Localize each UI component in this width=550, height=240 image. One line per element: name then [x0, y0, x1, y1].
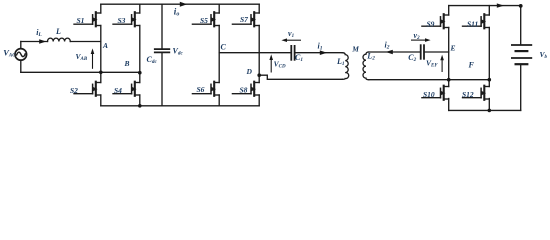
svg-text:Vdc: Vdc: [173, 47, 184, 57]
svg-text:Vb: Vb: [540, 50, 548, 60]
svg-text:E: E: [450, 44, 456, 53]
transistor S2: [74, 82, 101, 96]
svg-text:S6: S6: [197, 85, 205, 94]
bridge3 right leg: [488, 6, 490, 15]
capacitor Cdc wire bottom: [161, 53, 163, 106]
dot S4 bottom: [138, 104, 142, 108]
svg-text:C1: C1: [295, 53, 303, 63]
svg-text:S8: S8: [240, 85, 248, 94]
wire source bottom riser: [20, 60, 22, 72]
wire inductor to node A: [70, 41, 101, 43]
svg-text:S10: S10: [423, 90, 435, 99]
arrow VAB (up): [92, 53, 94, 69]
current arrow i1: [320, 50, 327, 55]
arrow VEF (up): [441, 59, 443, 72]
coupled inductor L1: [342, 53, 349, 80]
svg-text:S1: S1: [77, 16, 85, 25]
svg-text:v1: v1: [288, 29, 294, 39]
node D path: [259, 75, 342, 79]
svg-text:C2: C2: [408, 53, 416, 63]
svg-text:L: L: [55, 27, 61, 36]
bridge2 left leg: [218, 4, 220, 13]
transistor S4: [113, 82, 140, 96]
bridge1 left leg: [100, 4, 102, 13]
transistor S5: [192, 12, 219, 26]
bottom rail bridges 1-2: [101, 105, 259, 107]
arrow v1 (left): [286, 39, 302, 41]
wire source top riser: [20, 42, 22, 49]
battery wire bottom: [520, 65, 522, 111]
transistor S9: [422, 14, 449, 28]
capacitor Cdc plates: [155, 48, 170, 50]
battery Vb plates: [512, 44, 531, 46]
battery current arrow: [497, 3, 504, 7]
transistor S3: [113, 12, 140, 26]
transistor S11: [463, 14, 490, 28]
svg-text:F: F: [468, 60, 475, 69]
arrow VCD (up): [270, 59, 272, 73]
wire bottom from source to node B: [21, 71, 140, 73]
current arrow io: [180, 2, 187, 7]
svg-text:i2: i2: [385, 41, 390, 51]
mosfet arrows: [93, 17, 98, 21]
wire C1 to L1: [295, 52, 342, 54]
svg-text:S11: S11: [467, 20, 478, 29]
svg-text:L1: L1: [336, 57, 345, 67]
junction dots and current arrows: [39, 2, 522, 113]
transistor S8: [232, 82, 259, 96]
transistor S12: [463, 86, 490, 100]
svg-text:S9: S9: [427, 20, 435, 29]
svg-text:L2: L2: [366, 52, 375, 62]
svg-text:D: D: [246, 67, 253, 76]
wire L2 top to C2: [369, 51, 420, 53]
svg-text:M: M: [351, 45, 359, 54]
current arrow iL: [39, 39, 46, 43]
node F dot: [488, 78, 492, 82]
svg-text:S7: S7: [240, 15, 248, 24]
capacitor C2 plates: [420, 45, 422, 59]
arrow v2 (right): [411, 39, 427, 41]
transistor S6: [192, 82, 219, 96]
bottom rail bridge3: [449, 109, 521, 111]
svg-text:C: C: [221, 43, 227, 52]
MOSFET switches: [74, 12, 489, 100]
top rail bridges 1-2: [101, 3, 259, 5]
svg-text:Cdc: Cdc: [147, 55, 158, 65]
wire L2 bottom to bridge3: [369, 79, 490, 81]
transistor S10: [422, 86, 449, 100]
coupled inductor L2: [363, 52, 369, 80]
svg-text:VAB: VAB: [76, 52, 88, 62]
AC source vAC: [15, 49, 27, 61]
svg-text:S4: S4: [114, 86, 122, 95]
svg-text:S2: S2: [70, 86, 78, 95]
transistor S1: [74, 12, 101, 26]
dot E leg / bottom wire: [447, 78, 451, 82]
wire C2 to node E: [425, 51, 449, 53]
bridge2 right leg: [258, 4, 260, 13]
capacitor Cdc wire top: [161, 4, 163, 48]
inductor L: [48, 38, 71, 41]
node dot at left leg / bottom wire: [99, 71, 103, 75]
node B dot: [138, 71, 142, 75]
battery wire top: [520, 6, 522, 45]
svg-text:B: B: [124, 59, 130, 68]
svg-text:i1: i1: [318, 42, 323, 52]
transistor S7: [232, 12, 259, 26]
dot S12 bottom: [488, 109, 492, 113]
svg-text:v2: v2: [414, 31, 421, 41]
svg-text:S3: S3: [118, 16, 126, 25]
svg-text:VCD: VCD: [274, 60, 286, 70]
bridge1 right leg: [139, 4, 141, 13]
node D dot: [257, 73, 261, 77]
bridge3 left leg: [448, 6, 450, 15]
svg-text:VAC: VAC: [3, 47, 16, 58]
current arrow i2 (points left): [386, 50, 393, 55]
wire top from source to inductor: [21, 41, 48, 43]
svg-text:io: io: [174, 7, 180, 18]
svg-text:iL: iL: [36, 28, 42, 38]
top rail bridge3: [449, 5, 521, 7]
svg-text:S5: S5: [200, 16, 208, 25]
svg-text:S12: S12: [462, 90, 474, 99]
svg-text:VEF: VEF: [426, 59, 438, 69]
dot battery top corner: [519, 4, 523, 8]
capacitor C1 plates: [290, 46, 292, 60]
voltage arrows: [91, 38, 444, 72]
svg-text:A: A: [102, 41, 108, 50]
node C wire: [219, 52, 291, 54]
